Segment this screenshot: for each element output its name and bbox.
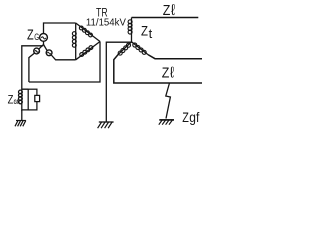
svg-text:gf: gf: [189, 110, 199, 125]
generator source G2 (left phase): [34, 48, 40, 54]
ground (generator neutral): [16, 120, 26, 122]
label Z_l top: [163, 2, 175, 19]
resistor R (Z_GN right branch box): [35, 95, 40, 101]
wire: bottom bus to delta vertex C: [29, 42, 100, 83]
label TR: [86, 5, 126, 28]
wire: parallel loop of Z_GN: [22, 89, 28, 110]
wire: left phase down to bottom bus: [29, 53, 34, 82]
generator source G3 (right phase): [46, 50, 52, 56]
ground (transformer neutral): [99, 121, 114, 123]
wire: wye neutral to ground: [106, 42, 131, 122]
feeder line 1 (top): [132, 17, 199, 19]
wire: generator neutral to Z_GN: [22, 46, 43, 89]
svg-text:ℓ: ℓ: [170, 65, 174, 82]
wire: top phase from generator to delta corner A: [44, 23, 76, 34]
svg-text:G: G: [34, 32, 39, 43]
label Zgf: [182, 109, 199, 125]
wye winding: top branch coil: [131, 18, 133, 43]
wire: right phase to delta corner B: [51, 55, 75, 60]
label Z_GN: [8, 92, 20, 106]
generator source G1 (top phase): [40, 34, 48, 42]
transformer delta winding: bottom edge coil B-C: [76, 42, 100, 60]
label Zt: [141, 23, 153, 41]
svg-text:GN: GN: [14, 99, 20, 106]
wye winding: down-right branch coil: [132, 42, 149, 55]
transformer delta winding: top edge coil A-C: [76, 23, 100, 42]
svg-text:Z: Z: [163, 2, 171, 19]
feeder line 2 (middle): [148, 55, 202, 59]
svg-text:Z: Z: [8, 92, 14, 106]
svg-text:Z: Z: [27, 26, 34, 43]
feeder line 3 (bottom) with entry from wye: [114, 54, 202, 83]
svg-text:Z: Z: [162, 64, 170, 81]
wye winding: down-left branch coil: [119, 42, 132, 54]
svg-text:11/154kV: 11/154kV: [86, 17, 126, 28]
label Z_G: [27, 26, 39, 43]
svg-text:Z: Z: [182, 109, 189, 125]
svg-text:ℓ: ℓ: [171, 2, 175, 19]
label Z_l middle: [162, 64, 174, 81]
grounding reactor coil (Z_GN left branch): [21, 89, 23, 111]
fault bolt to ground: [166, 83, 171, 119]
transformer delta winding: left edge coil: [75, 23, 77, 60]
wire: generator star junction legs: [39, 41, 43, 49]
svg-text:Z: Z: [141, 23, 148, 38]
svg-text:t: t: [149, 26, 153, 41]
wire: Z_GN down to ground: [21, 110, 23, 121]
ground (fault): [159, 119, 174, 121]
